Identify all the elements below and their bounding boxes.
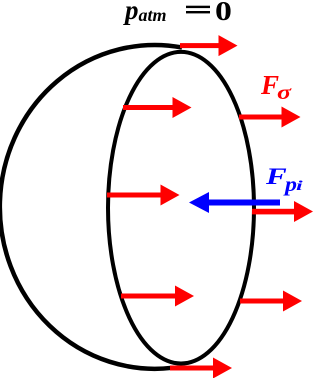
pressure arrow lower-left (red) bbox=[121, 286, 194, 307]
surface tension arrow lower-right (red) bbox=[240, 291, 302, 312]
surface tension arrow upper-right (red) bbox=[239, 107, 301, 128]
equals sign of p_atm = 0 bbox=[186, 6, 210, 14]
label p subscript of F_p_i (blue) bbox=[285, 175, 297, 195]
outer sphere outline (left circular arc) bbox=[0, 45, 182, 369]
pressure arrow upper-left (red) bbox=[123, 97, 192, 118]
rim ellipse (hemisphere cut plane) bbox=[108, 52, 254, 364]
pressure arrow top (red, at top junction) bbox=[180, 35, 238, 56]
pressure arrow bottom (red, at bottom junction) bbox=[170, 358, 232, 378]
pressure arrow middle-left (red) bbox=[107, 185, 180, 206]
label 0 (top equation) bbox=[215, 0, 232, 25]
label p_atm (top, part of p_atm = 0) bbox=[125, 0, 167, 24]
label sigma subscript of F_sigma (red) bbox=[277, 83, 291, 103]
internal pressure resultant arrow (blue, pointing left) bbox=[189, 192, 280, 213]
label F of F_sigma (red) bbox=[261, 72, 279, 99]
label i subscript of F_p_i (blue) bbox=[296, 180, 303, 194]
label F of F_p_i (blue) bbox=[266, 165, 287, 188]
surface tension arrow middle-right (red) bbox=[252, 201, 313, 222]
